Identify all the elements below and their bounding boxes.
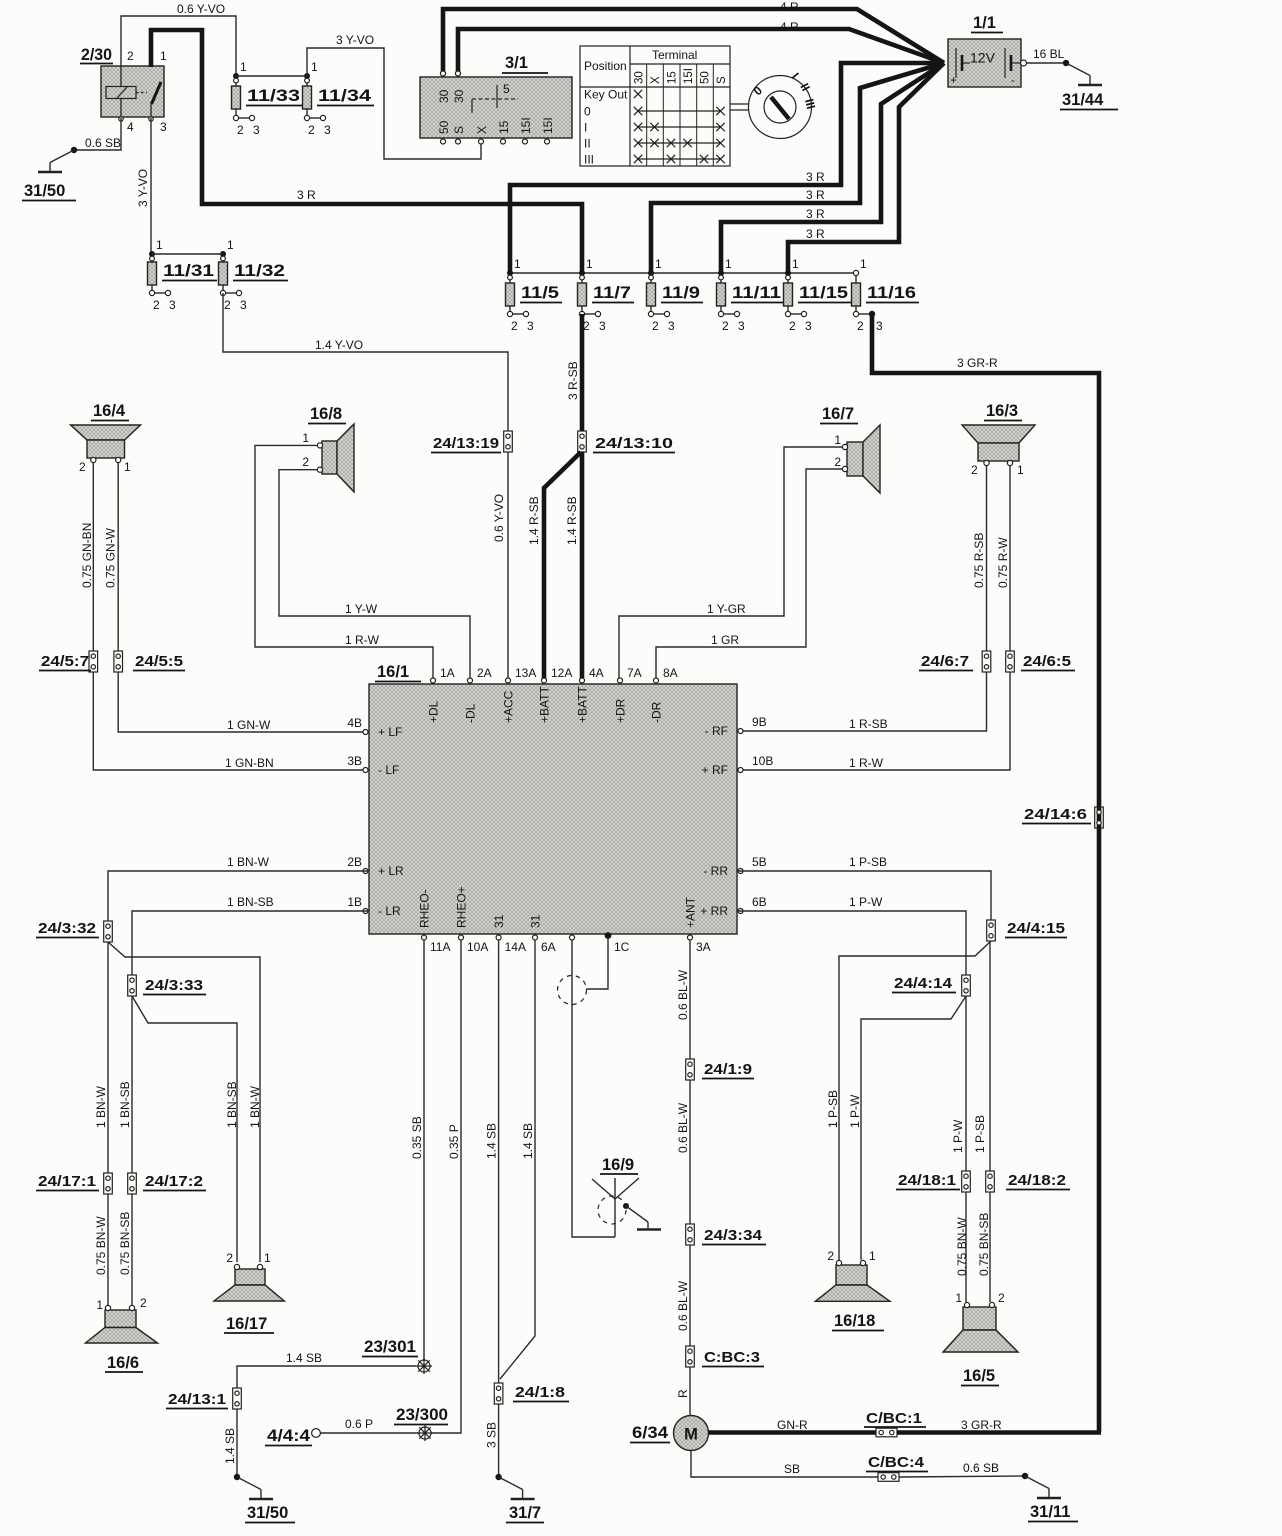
svg-text:9B: 9B [752, 715, 767, 729]
svg-text:2: 2 [789, 319, 796, 333]
svg-text:1.4 SB: 1.4 SB [223, 1428, 237, 1464]
svg-text:3 GR-R: 3 GR-R [961, 1418, 1002, 1432]
svg-text:1: 1 [655, 257, 662, 271]
svg-text:III: III [584, 153, 594, 167]
svg-text:1 BN-W: 1 BN-W [227, 855, 270, 869]
wire : bus linking fuse pin 1 row [510, 272, 856, 274]
svg-text:0.75 GN-W: 0.75 GN-W [104, 527, 118, 588]
wire 1 P-SB : 24/4:15 to 24/18:2 [973, 941, 990, 1171]
svg-text:1 P-W: 1 P-W [848, 1094, 862, 1128]
wire 16 BL : battery to ground 31/44 [1021, 47, 1067, 66]
wire : 16/1 antenna feed pin to antenna 16/9 [572, 940, 615, 1237]
wire 3 GR-R : C/BC:1 to right riser [897, 1418, 1101, 1433]
svg-text:2: 2 [127, 49, 134, 63]
fuse 11/7 [578, 257, 635, 333]
svg-text:8A: 8A [663, 666, 678, 680]
svg-text:1.4 SB: 1.4 SB [521, 1123, 535, 1159]
wire 3 Y-VO : 2/30 pin3 down to 11/31 [136, 118, 151, 254]
svg-text:-DR: -DR [650, 701, 664, 723]
svg-text:3: 3 [805, 319, 812, 333]
wire 3 R-SB : fuse 11/7 pin2 to connector 24/13:10 [566, 314, 582, 431]
svg-text:3 R-SB: 3 R-SB [566, 361, 580, 400]
svg-text:3B: 3B [347, 754, 362, 768]
svg-text:3 Y-VO: 3 Y-VO [136, 169, 150, 207]
svg-text:RHEO-: RHEO- [418, 889, 432, 928]
svg-text:1: 1 [156, 238, 163, 252]
svg-text:I: I [584, 121, 587, 135]
svg-text:1: 1 [240, 60, 247, 74]
splice 23/301 [362, 1338, 432, 1374]
connector 24/4:15 [987, 920, 1067, 941]
wire 3 GR-R : fuse 11/16 pin3 down right side to motor [869, 311, 1099, 1433]
wire 0.6 SB : C/BC:4 to ground 31/11 [899, 1461, 1025, 1477]
svg-text:2: 2 [652, 319, 659, 333]
wire 0.75 BN-W : 24/18:1 to 16/5 pin1 [955, 1192, 969, 1302]
svg-text:1.4 R-SB: 1.4 R-SB [565, 496, 579, 545]
svg-text:1B: 1B [347, 895, 362, 909]
wire 3 R : battery feed to fuse 11/15 [788, 63, 944, 273]
svg-text:11/33: 11/33 [247, 87, 300, 105]
svg-text:2: 2 [971, 463, 978, 477]
svg-text:1: 1 [860, 257, 867, 271]
wire 1 BN-W : 24/3:32 branch to speaker 16/17 pin1 [108, 942, 262, 1262]
svg-text:11/34: 11/34 [318, 87, 372, 105]
audio unit 16/1 [347, 663, 773, 954]
svg-text:1 P-SB: 1 P-SB [973, 1115, 987, 1153]
svg-text:-: - [1011, 75, 1015, 87]
svg-text:1: 1 [124, 460, 131, 474]
svg-text:24/5:5: 24/5:5 [135, 653, 183, 670]
ground 31/11 [1022, 1473, 1078, 1522]
svg-text:24/6:5: 24/6:5 [1023, 653, 1071, 670]
wire 0.75 BN-SB : 24/18:2 to 16/5 pin2 [977, 1192, 991, 1302]
svg-text:24/14:6: 24/14:6 [1024, 806, 1087, 823]
connector 24/3:33 [128, 975, 206, 996]
svg-text:RHEO+: RHEO+ [455, 886, 469, 928]
svg-text:0.6 BL-W: 0.6 BL-W [676, 969, 690, 1020]
svg-text:0.6 SB: 0.6 SB [963, 1461, 999, 1475]
svg-text:24/4:15: 24/4:15 [1007, 920, 1065, 937]
svg-text:- RF: - RF [705, 724, 728, 738]
wire 1 P-W : 24/4:14 to 24/18:1 [951, 996, 966, 1171]
svg-text:1: 1 [160, 49, 167, 63]
svg-text:24/1:8: 24/1:8 [515, 1384, 565, 1401]
wire 1 P-W : 24/4:14 branch to speaker 16/18 pin1 [848, 996, 966, 1260]
ground 31/50 (bottom) [234, 1474, 295, 1523]
speaker 16/4 (left front) [71, 402, 141, 474]
svg-text:11A: 11A [430, 940, 450, 954]
svg-text:1 P-W: 1 P-W [951, 1119, 965, 1153]
svg-text:2: 2 [857, 319, 864, 333]
svg-text:+ LR: + LR [378, 864, 404, 878]
wire 4 R (lower) : 3/1 pin 30 to battery [458, 20, 944, 73]
battery 1/1 [948, 14, 1021, 87]
svg-text:15I: 15I [541, 117, 555, 134]
svg-text:30: 30 [634, 71, 646, 84]
svg-text:+ LF: + LF [378, 725, 402, 739]
fuse 11/33 [232, 60, 304, 137]
connector 24/5:7 [39, 651, 98, 672]
svg-text:C:BC:3: C:BC:3 [704, 1349, 760, 1366]
svg-text:Terminal: Terminal [652, 48, 697, 62]
svg-text:24/3:32: 24/3:32 [38, 920, 96, 937]
wire 1 BN-SB : 16/1 pin 1B to 24/3:33 [132, 895, 369, 975]
speaker 16/3 (right front) [962, 402, 1035, 477]
wire 0.6 BL-W : 16/1 pin 3A to 24/1:9 [676, 940, 690, 1059]
svg-text:16/18: 16/18 [834, 1312, 875, 1330]
svg-text:Key Out: Key Out [584, 88, 628, 102]
svg-text:23/300: 23/300 [396, 1406, 448, 1424]
wire 1 R-W : 16/8 pin1 to 16/1 pin 1A [255, 445, 433, 680]
svg-text:1 R-SB: 1 R-SB [849, 717, 888, 731]
wire 0.75 GN-W : 16/4 pin1 to 24/5:5 [104, 463, 119, 651]
connector 24/13:1 [166, 1388, 241, 1409]
svg-text:4A: 4A [589, 666, 604, 680]
svg-text:II: II [584, 137, 591, 151]
svg-text:10B: 10B [752, 754, 773, 768]
connector 24/14:6 (on 3 GR-R riser) [1022, 806, 1103, 828]
wire 1 BN-SB : 24/3:33 to 24/17:2 [118, 996, 132, 1173]
svg-text:1: 1 [1017, 463, 1024, 477]
svg-text:0.6 P: 0.6 P [345, 1417, 373, 1431]
wire 1 BN-W : 24/3:32 to 24/17:1 [94, 942, 108, 1173]
wire 1 BN-SB : 24/3:33 branch to speaker 16/17 pin2 [132, 996, 239, 1262]
svg-text:0.75 BN-SB: 0.75 BN-SB [118, 1212, 132, 1275]
svg-text:16/1: 16/1 [377, 663, 409, 681]
svg-text:4B: 4B [347, 716, 362, 730]
wire 1 GN-BN : 24/5:7 to 16/1 pin 3B [93, 672, 369, 770]
svg-text:16/3: 16/3 [986, 402, 1018, 420]
svg-text:0.6 Y-VO: 0.6 Y-VO [492, 494, 506, 542]
connector C/BC:4 [866, 1454, 928, 1481]
svg-text:1 GN-W: 1 GN-W [227, 718, 271, 732]
svg-text:+ RF: + RF [702, 763, 728, 777]
svg-text:1: 1 [264, 1251, 271, 1265]
wire 1 GN-W : 24/5:5 to 16/1 pin 4B [118, 672, 369, 732]
svg-text:0.75 BN-W: 0.75 BN-W [955, 1217, 969, 1276]
svg-text:16 BL: 16 BL [1033, 47, 1065, 61]
svg-text:3: 3 [668, 319, 675, 333]
wire 3 R : battery feed to fuse 11/5 [510, 63, 944, 273]
svg-text:1A: 1A [440, 666, 455, 680]
svg-text:C/BC:1: C/BC:1 [866, 1410, 922, 1427]
shield link circle at antenna lead [558, 976, 587, 1005]
svg-text:- LF: - LF [378, 763, 399, 777]
svg-text:1 BN-W: 1 BN-W [248, 1085, 262, 1128]
svg-text:4 R: 4 R [780, 20, 799, 34]
svg-text:5B: 5B [752, 855, 767, 869]
fuse 11/5 [506, 257, 563, 333]
wire 0.6 P : 4/4:4 to splice 23/300 [321, 1417, 420, 1433]
speaker 16/6 (left rear door) [85, 1296, 157, 1372]
svg-text:S: S [452, 126, 466, 134]
svg-text:+: + [950, 75, 957, 87]
svg-text:3 Y-VO: 3 Y-VO [336, 33, 374, 47]
connector 24/1:8 [494, 1383, 569, 1404]
svg-text:1 BN-SB: 1 BN-SB [225, 1081, 239, 1128]
svg-text:11/32: 11/32 [234, 262, 285, 280]
svg-text:1 GR: 1 GR [711, 633, 739, 647]
wire : 11/33 pin1 to 11/34 pin1 [236, 75, 307, 77]
svg-text:3 R: 3 R [806, 170, 825, 184]
wire 0.75 BN-W : 24/17:1 to 16/6 pin1 [94, 1194, 108, 1306]
svg-text:0.6 Y-VO: 0.6 Y-VO [177, 2, 225, 16]
svg-text:31/44: 31/44 [1062, 91, 1104, 109]
ignition switch 3/1 [420, 54, 572, 144]
svg-text:1 R-W: 1 R-W [849, 756, 884, 770]
svg-text:0.75 R-W: 0.75 R-W [996, 537, 1010, 588]
connector 24/3:34 [686, 1224, 766, 1245]
svg-text:1 GN-BN: 1 GN-BN [225, 756, 274, 770]
svg-text:-DL: -DL [464, 703, 478, 723]
speaker 16/8 (left rear deck) [302, 405, 354, 492]
fuse 11/32 [219, 238, 289, 312]
wire 1 GR : 16/7 pin2 to 16/1 pin 8A [656, 469, 843, 680]
svg-text:11/9: 11/9 [662, 284, 700, 302]
fuse 11/9 [647, 257, 704, 333]
connector 24/6:5 [1006, 651, 1075, 672]
svg-text:+BATT: +BATT [538, 686, 552, 723]
svg-text:+ACC: +ACC [502, 690, 516, 723]
ground 31/44 [1060, 60, 1118, 110]
ground 31/7 [495, 1474, 544, 1523]
svg-text:3 R: 3 R [806, 207, 825, 221]
wire 1 Y-W : 16/8 pin2 to 16/1 pin 2A [279, 470, 470, 680]
wire 1 BN-W : 16/1 pin 2B to 24/3:32 [108, 855, 369, 921]
svg-text:13A: 13A [515, 666, 536, 680]
svg-text:31/7: 31/7 [509, 1504, 541, 1522]
svg-text:SB: SB [784, 1462, 800, 1476]
svg-text:2: 2 [827, 1249, 834, 1263]
svg-text:2: 2 [834, 455, 841, 469]
svg-text:1: 1 [869, 1249, 876, 1263]
wire 3 R : battery feed to fuse 11/9 [651, 63, 944, 273]
relay 2/30 [80, 46, 167, 134]
svg-text:X: X [650, 76, 662, 84]
svg-text:4/4:4: 4/4:4 [267, 1427, 311, 1445]
svg-text:2: 2 [722, 319, 729, 333]
svg-text:16/9: 16/9 [602, 1156, 634, 1174]
svg-text:1: 1 [955, 1291, 962, 1305]
svg-text:11/5: 11/5 [521, 284, 559, 302]
wire 3 SB : 24/1:8 to ground 31/7 [485, 1404, 499, 1477]
svg-text:0.75 R-SB: 0.75 R-SB [972, 533, 986, 588]
svg-text:16/6: 16/6 [107, 1354, 139, 1372]
svg-text:16/4: 16/4 [93, 402, 126, 420]
terminal 4/4:4 [265, 1427, 320, 1446]
svg-text:10A: 10A [467, 940, 488, 954]
svg-text:14A: 14A [505, 940, 526, 954]
svg-text:31/50: 31/50 [247, 1504, 288, 1522]
connector C:BC:3 [686, 1346, 764, 1367]
svg-text:3: 3 [160, 120, 167, 134]
antenna motor 6/34 [630, 1416, 709, 1451]
wire 0.6 Y-VO : 24/13:19 to 16/1 pin 13A [492, 452, 508, 680]
wire : 16/1 pin 1C shield to antenna lead [587, 938, 609, 989]
svg-text:24/1:9: 24/1:9 [704, 1061, 752, 1078]
antenna 16/9 [592, 1156, 661, 1237]
svg-text:30: 30 [437, 89, 451, 103]
svg-text:0.35 P: 0.35 P [447, 1124, 461, 1159]
wire 1.4 SB : 16/1 pin 6A to 24/1:8 [500, 940, 535, 1379]
svg-text:+DL: +DL [427, 700, 441, 723]
wire 1.4 SB : 24/13:1 to ground [223, 1409, 237, 1477]
wire 1.4 R-SB : 24/13:10 to 16/1 pin 12A [527, 452, 581, 680]
svg-text:0.75 BN-W: 0.75 BN-W [94, 1216, 108, 1275]
connector 24/1:9 [686, 1059, 754, 1080]
svg-text:1 Y-W: 1 Y-W [345, 602, 378, 616]
svg-text:50: 50 [437, 120, 451, 134]
svg-text:4 R: 4 R [780, 0, 799, 14]
connector 24/5:5 [114, 651, 185, 672]
svg-text:2: 2 [140, 1296, 147, 1310]
svg-text:5: 5 [503, 82, 510, 96]
wire 0.6 BL-W : 24/3:34 to C:BC:3 [676, 1245, 690, 1346]
svg-text:3: 3 [527, 319, 534, 333]
svg-text:2: 2 [153, 298, 160, 312]
svg-text:2A: 2A [477, 666, 492, 680]
svg-text:1 Y-GR: 1 Y-GR [707, 602, 746, 616]
svg-text:24/17:2: 24/17:2 [145, 1173, 203, 1190]
svg-text:16/7: 16/7 [822, 405, 854, 423]
svg-text:0.75 GN-BN: 0.75 GN-BN [80, 523, 94, 588]
svg-text:+BATT: +BATT [576, 686, 590, 723]
fuse 11/15 [784, 257, 852, 333]
wire 0.75 R-W : 16/3 pin1 to 24/6:5 [996, 466, 1010, 651]
svg-text:24/18:1: 24/18:1 [898, 1172, 956, 1189]
connector C/BC:1 [864, 1410, 926, 1437]
svg-text:24/6:7: 24/6:7 [921, 653, 969, 670]
wire GN-R : motor 6/34 to C/BC:1 [709, 1418, 877, 1433]
svg-text:4: 4 [127, 120, 134, 134]
wire 1 R-W : 16/1 pin 10B to 24/6:5 [737, 672, 1010, 770]
svg-text:0.6 SB: 0.6 SB [85, 136, 121, 150]
svg-text:2: 2 [511, 319, 518, 333]
wire 3 R : battery feed to fuse 11/11 [721, 63, 944, 273]
splice 23/300 [394, 1406, 448, 1441]
svg-text:1: 1 [514, 257, 521, 271]
svg-text:6A: 6A [541, 940, 556, 954]
svg-text:3: 3 [876, 319, 883, 333]
svg-text:- RR: - RR [703, 864, 728, 878]
svg-text:0.6 BL-W: 0.6 BL-W [676, 1280, 690, 1331]
svg-text:0.35 SB: 0.35 SB [410, 1116, 424, 1159]
svg-text:1: 1 [311, 60, 318, 74]
svg-text:3 R: 3 R [806, 188, 825, 202]
wire 1 P-W : 16/1 pin 6B to 24/4:14 [737, 895, 966, 975]
svg-text:C/BC:4: C/BC:4 [868, 1454, 925, 1471]
wire 0.75 R-SB : 16/3 pin2 to 24/6:7 [972, 466, 987, 651]
svg-text:16/17: 16/17 [226, 1315, 267, 1333]
svg-text:3 SB: 3 SB [485, 1422, 499, 1448]
wire 0.75 GN-BN : 16/4 pin2 to 24/5:7 [80, 463, 94, 651]
wire 0.35 SB : 16/1 pin 11A to splice 23/301 [410, 940, 424, 1360]
svg-text:2: 2 [237, 123, 244, 137]
svg-text:16/8: 16/8 [310, 405, 342, 423]
svg-text:S: S [716, 76, 728, 84]
svg-text:2: 2 [226, 1251, 233, 1265]
wire 1.4 Y-VO : 11/32 pin2 to connector 24/13:19 [223, 293, 508, 431]
svg-text:3: 3 [599, 319, 606, 333]
wire 0.6 SB : 2/30 pin4 to ground 31/50 [74, 118, 121, 150]
wire 0.75 BN-SB : 24/17:2 to 16/6 pin2 [118, 1194, 132, 1306]
svg-text:+ RR: + RR [700, 904, 728, 918]
connector 24/13:10 [578, 431, 675, 453]
wire 1 P-SB : 16/1 pin 5B to 24/4:15 [737, 855, 991, 920]
svg-text:24/17:1: 24/17:1 [38, 1173, 96, 1190]
svg-text:31: 31 [529, 914, 543, 928]
svg-text:3: 3 [324, 123, 331, 137]
wire 1 P-SB : 24/4:15 branch to speaker 16/18 pin2 [826, 941, 991, 1260]
fuse 11/11 [717, 257, 785, 333]
svg-text:2: 2 [302, 455, 309, 469]
svg-text:1 BN-SB: 1 BN-SB [118, 1081, 132, 1128]
svg-text:24/4:14: 24/4:14 [894, 975, 953, 992]
svg-text:1: 1 [227, 238, 234, 252]
wire 3 Y-VO : 11/34 pin1 to ignition switch X pin [307, 33, 481, 159]
speaker 16/17 (left rear) [214, 1251, 284, 1333]
svg-text:11/15: 11/15 [799, 284, 848, 302]
svg-text:2/30: 2/30 [81, 46, 112, 64]
svg-text:12A: 12A [551, 666, 572, 680]
svg-text:6B: 6B [752, 895, 767, 909]
svg-text:1C: 1C [614, 940, 630, 954]
svg-text:1: 1 [792, 257, 799, 271]
svg-text:24/13:10: 24/13:10 [595, 435, 673, 452]
svg-text:1/1: 1/1 [973, 14, 996, 32]
svg-text:2: 2 [308, 123, 315, 137]
connector 24/13:19 [431, 431, 512, 453]
svg-text:+ANT: +ANT [684, 896, 698, 928]
svg-text:6/34: 6/34 [632, 1424, 669, 1442]
svg-text:15: 15 [667, 71, 679, 84]
svg-text:1 BN-SB: 1 BN-SB [227, 895, 274, 909]
svg-text:1.4 SB: 1.4 SB [485, 1123, 499, 1159]
svg-text:M: M [684, 1426, 698, 1444]
svg-text:24/13:1: 24/13:1 [168, 1391, 226, 1408]
key cylinder icon [730, 70, 818, 139]
fuse 11/34 [303, 60, 375, 137]
svg-text:31: 31 [492, 914, 506, 928]
svg-text:24/3:34: 24/3:34 [704, 1227, 763, 1244]
wire 1.4 R-SB : 24/13:10 to 16/1 pin 4A [565, 452, 582, 680]
svg-text:1.4 SB: 1.4 SB [286, 1351, 322, 1365]
svg-text:3/1: 3/1 [505, 54, 528, 72]
svg-text:GN-R: GN-R [777, 1418, 808, 1432]
svg-text:15: 15 [497, 120, 511, 134]
svg-text:23/301: 23/301 [364, 1338, 416, 1356]
svg-text:3: 3 [240, 298, 247, 312]
svg-text:3: 3 [253, 123, 260, 137]
svg-text:24/18:2: 24/18:2 [1008, 1172, 1066, 1189]
connector 24/18:1 [896, 1171, 970, 1192]
svg-text:1 R-W: 1 R-W [345, 633, 380, 647]
wire 1.4 SB : 16/1 pin 14A to 24/1:8 [485, 940, 499, 1383]
wire : 11/31 pin1 to 11/32 pin1 [152, 253, 223, 255]
svg-text:3 GR-R: 3 GR-R [957, 356, 998, 370]
svg-text:2: 2 [998, 1291, 1005, 1305]
svg-text:1 P-W: 1 P-W [849, 895, 883, 909]
svg-text:2: 2 [79, 460, 86, 474]
svg-text:3 R: 3 R [806, 227, 825, 241]
svg-text:24/13:19: 24/13:19 [433, 435, 499, 452]
svg-text:1: 1 [302, 431, 309, 445]
svg-text:1 P-SB: 1 P-SB [849, 855, 887, 869]
connector 24/17:2 [128, 1173, 206, 1194]
svg-text:15I: 15I [519, 117, 533, 134]
connector 24/3:32 [36, 920, 112, 942]
pin circles 30/30 of 3/1 [441, 71, 461, 76]
